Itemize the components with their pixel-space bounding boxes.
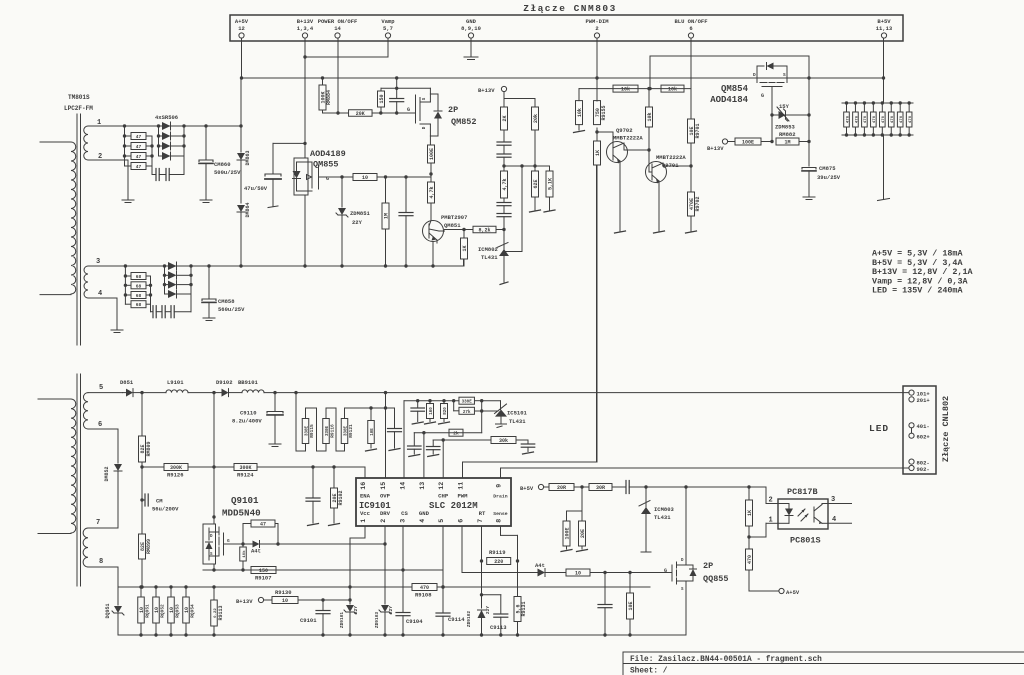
svg-text:RQ954: RQ954 xyxy=(190,604,196,618)
label 2P QM852 xyxy=(448,105,477,127)
svg-text:10: 10 xyxy=(575,571,581,577)
capacitor snubber upper a xyxy=(152,169,159,181)
svg-text:G: G xyxy=(227,538,230,544)
svg-text:QM851: QM851 xyxy=(444,222,461,229)
connector CNM803 title xyxy=(523,3,617,14)
diode DM864 xyxy=(237,176,251,266)
wire BLU down xyxy=(690,89,692,119)
resistor 47 d xyxy=(125,163,153,171)
wire Vamp pin stub xyxy=(305,38,388,57)
diode SR506 4 xyxy=(159,152,185,160)
diode lower 2 xyxy=(165,271,192,279)
resistor 1K pwm xyxy=(594,128,601,462)
svg-text:220: 220 xyxy=(494,559,503,565)
transformer pin 8 xyxy=(88,558,118,587)
wire pin11 pwm line xyxy=(463,166,597,478)
transformer secondary winding 7-8 xyxy=(83,528,88,567)
connector CNL802 pin 201+ xyxy=(909,397,931,404)
svg-text:MMBT2222A: MMBT2222A xyxy=(613,135,643,142)
junction bus635 x403 xyxy=(401,633,404,636)
svg-text:AOD4184: AOD4184 xyxy=(710,95,748,105)
transistor Q9701 MMBT2222A xyxy=(646,150,692,231)
junction pin3 x164 xyxy=(163,264,166,267)
capacitor C9113 xyxy=(490,595,508,635)
capacitor c417 xyxy=(411,399,425,424)
svg-text:15: 15 xyxy=(380,482,387,490)
svg-text:ENA: ENA xyxy=(360,493,371,500)
svg-text:QM854: QM854 xyxy=(721,84,749,94)
svg-text:2k: 2k xyxy=(453,431,459,437)
capacitor ena xyxy=(306,467,320,526)
svg-text:R9155: R9155 xyxy=(601,105,607,120)
junction x306 y143 xyxy=(303,142,306,145)
transformer pin 4 xyxy=(88,290,117,330)
resistor R9116 330E xyxy=(323,408,336,451)
terminal B+13V low xyxy=(236,597,264,605)
resistor RM882 1M xyxy=(776,131,809,146)
svg-text:47: 47 xyxy=(136,164,142,170)
junction bus78 x884 xyxy=(882,76,885,79)
junction bus587 x141 xyxy=(139,585,142,588)
label LED xyxy=(869,423,889,434)
svg-text:CM: CM xyxy=(156,498,163,505)
junction bus635 x443 xyxy=(441,633,444,636)
wire RT stub xyxy=(480,526,483,563)
svg-text:68: 68 xyxy=(136,302,142,308)
svg-text:5: 5 xyxy=(99,384,103,392)
wire ICM803 end xyxy=(641,551,651,553)
connector CNM803 pin BLU ON/OFF 6 xyxy=(674,18,707,38)
junction bus635 x605 xyxy=(603,633,606,636)
svg-text:LED = 135V / 240mA: LED = 135V / 240mA xyxy=(872,286,963,296)
wire zener node vert xyxy=(807,56,810,166)
junction bus635 x481.5 xyxy=(480,633,483,636)
svg-text:R9121: R9121 xyxy=(348,424,354,438)
svg-text:2P: 2P xyxy=(703,561,713,571)
inductor BB9101 xyxy=(238,379,264,393)
junction pin1 x124 xyxy=(123,124,126,127)
svg-text:100E: 100E xyxy=(429,148,435,160)
svg-text:10k: 10k xyxy=(577,108,583,117)
transformer core lower xyxy=(77,374,81,586)
svg-text:47: 47 xyxy=(136,154,142,160)
svg-text:C9114: C9114 xyxy=(448,616,465,623)
inductor L9101 xyxy=(142,379,214,393)
svg-text:150: 150 xyxy=(259,568,268,574)
diode lower 4 xyxy=(165,290,192,298)
svg-text:GND: GND xyxy=(419,510,430,517)
junction bus266 x305 xyxy=(303,264,306,267)
svg-text:470: 470 xyxy=(864,115,868,123)
svg-text:C9110: C9110 xyxy=(240,410,257,417)
wire a5v corner xyxy=(749,590,779,592)
resistor 47 a xyxy=(125,133,153,141)
svg-text:L9101: L9101 xyxy=(167,379,184,386)
label AOD4189 QM855 xyxy=(310,149,346,170)
transformer primary upper winding xyxy=(40,142,76,295)
connector CNM803 body xyxy=(230,15,903,41)
resistor R9701 10E xyxy=(688,119,702,166)
wire diode cathode rail xyxy=(182,126,185,175)
svg-text:7: 7 xyxy=(96,519,100,527)
svg-text:TM801S: TM801S xyxy=(68,94,90,101)
svg-text:10E: 10E xyxy=(689,126,695,135)
capacitor drain node xyxy=(399,177,413,266)
svg-text:300K: 300K xyxy=(170,465,182,471)
diode A4t low xyxy=(462,562,566,577)
svg-text:39u/25V: 39u/25V xyxy=(817,174,841,181)
svg-text:602+: 602+ xyxy=(917,434,931,441)
ground 47u cap xyxy=(268,206,278,208)
svg-text:ZD9103: ZD9103 xyxy=(374,612,380,629)
junction node381 xyxy=(379,111,382,114)
svg-text:11: 11 xyxy=(458,482,465,490)
svg-text:4: 4 xyxy=(419,519,426,523)
svg-text:68: 68 xyxy=(136,283,142,289)
svg-text:C9113: C9113 xyxy=(490,624,507,631)
svg-text:10k: 10k xyxy=(668,87,677,93)
diode D9102 xyxy=(214,379,242,397)
svg-text:D: D xyxy=(753,72,756,78)
optocoupler pin 2 xyxy=(769,497,773,505)
junction bus266 x342 xyxy=(340,264,343,267)
wire fb corner xyxy=(766,487,778,504)
wire A+5V pin stub xyxy=(241,38,243,78)
transformer pin 6 xyxy=(88,421,118,429)
svg-text:R9124: R9124 xyxy=(237,472,254,479)
svg-text:CM860: CM860 xyxy=(214,161,231,168)
svg-text:RQ952: RQ952 xyxy=(160,604,166,618)
svg-text:PC801S: PC801S xyxy=(790,536,821,546)
wire vcc route xyxy=(350,526,365,587)
diode ZD9102 22Y xyxy=(466,595,491,635)
svg-text:RT: RT xyxy=(479,510,486,517)
wire bank feed xyxy=(296,393,306,451)
svg-text:DM864: DM864 xyxy=(245,202,251,217)
svg-text:14: 14 xyxy=(400,482,407,490)
wire QQ855 drain xyxy=(685,487,687,555)
ground 10k pulldown xyxy=(574,131,585,133)
connector CNM803 pin PWM-DIM 2 xyxy=(585,18,609,38)
resistor bank 8x470 xyxy=(844,101,913,136)
wire 10 to drain node xyxy=(377,174,431,177)
junction bus635 x500.8 xyxy=(499,633,502,636)
svg-text:12: 12 xyxy=(438,482,445,490)
transistor QQ855 2P xyxy=(664,555,697,592)
connector CNM803 pin B+5V 11,13 xyxy=(876,18,893,38)
junction blu mid xyxy=(647,87,650,90)
ic IC9101 top pin labels xyxy=(360,482,508,500)
wire r9126 line xyxy=(140,465,164,468)
resistor RQ951 10 xyxy=(138,587,151,635)
diode SR506 2 xyxy=(159,132,185,140)
wire B13 stub xyxy=(504,92,535,107)
label Q9101 MDD5N40 xyxy=(222,495,261,519)
svg-text:ZDM853: ZDM853 xyxy=(775,124,796,131)
capacitor CM 56u/200V xyxy=(142,494,179,513)
resistor 68 a xyxy=(125,273,150,281)
wire gate line y113 xyxy=(323,112,349,114)
junction cap top2 xyxy=(404,175,407,178)
ground pin2 xyxy=(122,200,134,203)
wire pin13 up xyxy=(423,433,425,478)
svg-text:10: 10 xyxy=(169,607,175,613)
svg-text:820: 820 xyxy=(444,407,448,415)
diode IC5101 TL431 xyxy=(482,401,507,423)
junction pin1 x158 xyxy=(157,124,160,127)
svg-text:Q9701: Q9701 xyxy=(662,162,679,169)
svg-text:Drain: Drain xyxy=(493,494,508,500)
diode D851 xyxy=(120,379,142,397)
resistor 68 b xyxy=(125,282,150,290)
capacitor after 30k xyxy=(516,440,535,454)
resistor 330E chp xyxy=(459,397,481,405)
capacitor snubber lower xyxy=(151,306,192,318)
svg-text:10E: 10E xyxy=(371,428,375,436)
wire 68 left rail xyxy=(124,266,127,304)
wire RT node xyxy=(480,561,501,597)
transformer pin 7 xyxy=(88,519,118,528)
note output voltages xyxy=(872,249,973,296)
svg-text:BB9101: BB9101 xyxy=(238,379,259,386)
wire snake b xyxy=(326,408,345,451)
svg-text:82E: 82E xyxy=(140,444,146,453)
svg-text:Vcc: Vcc xyxy=(360,510,371,517)
junction 20R out xyxy=(574,485,589,488)
transformer pin 3 xyxy=(88,258,100,266)
resistor 68 d xyxy=(125,301,150,309)
label PC801S xyxy=(790,536,821,546)
svg-text:R9130: R9130 xyxy=(275,589,292,596)
wire source line xyxy=(203,568,443,571)
svg-text:20E: 20E xyxy=(332,493,338,502)
svg-text:File: Zasilacz.BN44-00501A - f: File: Zasilacz.BN44-00501A - fragment.sc… xyxy=(630,656,822,664)
wire bus A+5V y78 xyxy=(242,77,884,79)
svg-text:Q9101: Q9101 xyxy=(231,495,259,506)
svg-text:1K: 1K xyxy=(747,510,753,516)
resistor RQ953 10 xyxy=(168,587,181,635)
svg-text:10: 10 xyxy=(282,598,288,604)
wire bus B+5V y266 xyxy=(94,265,464,267)
wire diode anode rail low xyxy=(163,266,166,294)
transistor QM852 2P xyxy=(407,88,442,145)
svg-text:MMBT2222A: MMBT2222A xyxy=(656,154,686,161)
svg-text:3: 3 xyxy=(831,496,835,504)
junction a4t out xyxy=(276,542,279,545)
ground 100E fb xyxy=(561,550,572,552)
diode DM852 xyxy=(104,429,122,528)
svg-text:10: 10 xyxy=(184,607,190,613)
wire B+5V pin stub xyxy=(883,38,885,78)
ground Q9702 emitter xyxy=(615,231,626,233)
resistor 8,2k xyxy=(445,226,497,233)
diode SR506 1 xyxy=(159,122,185,130)
junction bus587 x171 xyxy=(169,585,172,588)
junction bus78 x322 xyxy=(321,76,324,79)
resistor 1K QM851 xyxy=(461,228,468,266)
resistor 20K xyxy=(349,110,373,117)
svg-text:22Y: 22Y xyxy=(352,219,363,226)
connector CNL802 pin 902- xyxy=(909,465,930,472)
junction bus587 x142 xyxy=(140,585,143,588)
ground IC5101 xyxy=(496,424,507,428)
svg-text:16: 16 xyxy=(360,482,367,490)
svg-text:OVP: OVP xyxy=(380,493,391,500)
svg-text:TL431: TL431 xyxy=(481,254,498,261)
diode lower 1 xyxy=(165,262,192,270)
transistor Q9101 MDD5N40 xyxy=(203,524,243,564)
junction bus635 x214 xyxy=(212,633,215,636)
wire QQ855 source xyxy=(685,592,687,635)
wire 30k line xyxy=(433,438,491,441)
junction bus635 x385 xyxy=(383,633,386,636)
wire rail y392 xyxy=(264,392,909,394)
svg-text:62E: 62E xyxy=(533,179,539,188)
svg-text:R9102: R9102 xyxy=(338,490,344,505)
ground ovp filter xyxy=(389,449,400,451)
resistor R9155 750 xyxy=(594,101,608,125)
svg-text:12: 12 xyxy=(238,25,245,32)
wire bus gnd y635 xyxy=(118,634,686,636)
transformer core upper xyxy=(77,114,81,345)
optocoupler pin 3 xyxy=(831,496,835,504)
junction bus587 x443 xyxy=(441,585,444,588)
connector CNM803 pin POWER ON/OFF 14 xyxy=(318,18,358,38)
svg-text:D9102: D9102 xyxy=(216,379,233,386)
resistor 30k xyxy=(491,437,516,445)
wire BLU ON/OFF drop xyxy=(690,38,692,89)
junction pin1 x241 xyxy=(239,124,242,127)
svg-text:RM882: RM882 xyxy=(779,131,796,138)
resistor 1M vert xyxy=(382,177,389,266)
wire 27k to tl431 xyxy=(475,409,499,412)
junction bus266 x241 xyxy=(239,264,242,267)
resistor 1K opto xyxy=(746,487,753,537)
transformer secondary winding 5-6 xyxy=(83,393,88,429)
svg-text:9: 9 xyxy=(496,484,503,488)
resistor 68 c xyxy=(125,292,150,300)
diode ICM802 TL431 xyxy=(497,230,509,283)
wire opto pin3 out xyxy=(828,503,852,505)
capacitor div b xyxy=(497,145,511,166)
capacitor CM875 xyxy=(802,165,841,197)
svg-text:LPC2F-FM: LPC2F-FM xyxy=(64,105,93,112)
wire bank end bar xyxy=(878,199,890,201)
resistor RM899 82E xyxy=(139,500,153,587)
wire CS stub xyxy=(402,526,404,612)
diode ZDM853 15Y xyxy=(772,103,809,131)
resistor 47 gate xyxy=(243,520,278,544)
svg-text:2K: 2K xyxy=(502,115,508,121)
svg-text:TL431: TL431 xyxy=(654,514,671,521)
terminal B+13V right xyxy=(707,139,728,152)
capacitor ovp filter xyxy=(388,408,402,448)
svg-text:RQ951: RQ951 xyxy=(145,604,151,618)
svg-text:ICM803: ICM803 xyxy=(654,506,675,513)
junction icm803 top xyxy=(644,485,647,488)
junction bus635 x141 xyxy=(139,633,142,636)
svg-text:1M: 1M xyxy=(784,140,790,146)
optocoupler light arrows xyxy=(798,509,808,521)
junction bus635 x323 xyxy=(321,633,324,636)
wire opto pin1 link xyxy=(749,523,778,537)
svg-text:SLC 2012M: SLC 2012M xyxy=(429,501,478,511)
resistor r444 820 xyxy=(439,399,450,424)
wire 20k down xyxy=(534,130,536,166)
svg-text:3: 3 xyxy=(400,519,407,523)
svg-text:R9113: R9113 xyxy=(218,605,224,620)
svg-text:68: 68 xyxy=(136,274,142,280)
capacitor C9101 xyxy=(300,600,330,635)
svg-text:8.2u/400V: 8.2u/400V xyxy=(232,418,262,425)
svg-text:47: 47 xyxy=(136,134,142,140)
junction D851 node xyxy=(140,391,143,394)
svg-text:A4t: A4t xyxy=(535,562,545,569)
svg-text:CM858: CM858 xyxy=(218,298,235,305)
svg-text:560u/25V: 560u/25V xyxy=(218,306,245,313)
junction bus587 x156 xyxy=(154,585,157,588)
capacitor C9104 xyxy=(396,613,423,636)
svg-text:Vamp: Vamp xyxy=(381,18,395,25)
svg-text:C9104: C9104 xyxy=(406,618,423,625)
wire bus B13 y587 xyxy=(118,586,412,588)
svg-text:B+13V: B+13V xyxy=(297,18,314,25)
junction R9155 bottom xyxy=(595,130,598,133)
svg-text:B+13V: B+13V xyxy=(236,598,253,605)
junction bus635 x156 xyxy=(154,633,157,636)
svg-text:R9126: R9126 xyxy=(167,472,184,479)
label IC9101 xyxy=(359,501,391,511)
resistor 20E fb xyxy=(579,511,586,549)
junction Q9101 drain top xyxy=(212,391,215,394)
transistor Q9702 MMBT2222A xyxy=(597,132,649,231)
resistor 2K xyxy=(501,107,508,130)
capacitor div a xyxy=(497,130,511,145)
connector CNM803 pin GND 8,9,10 xyxy=(461,18,481,38)
label SLC 2012M xyxy=(429,501,478,511)
ground 10E ovp xyxy=(366,449,377,451)
connector CNM803 pin A+5V 12 xyxy=(235,18,249,38)
svg-text:201+: 201+ xyxy=(917,397,931,404)
svg-text:CM875: CM875 xyxy=(819,165,836,172)
svg-text:PMBT2907: PMBT2907 xyxy=(441,214,467,221)
label PC817B xyxy=(787,487,818,497)
ground 5,1K xyxy=(544,210,555,212)
transistor QM851 PMBT2907 xyxy=(423,221,445,267)
wire diode cathode rail low xyxy=(189,266,192,312)
junction bus635 x186 xyxy=(184,633,187,636)
svg-text:QM855: QM855 xyxy=(313,160,339,170)
transformer pin 2 xyxy=(88,153,128,200)
svg-text:470: 470 xyxy=(891,115,895,123)
svg-text:2P: 2P xyxy=(448,105,458,115)
svg-text:4: 4 xyxy=(98,290,102,298)
ic IC9101 bottom pin labels xyxy=(360,510,508,523)
wire 401-602 link xyxy=(911,428,913,433)
svg-text:470: 470 xyxy=(909,115,913,123)
svg-text:C9101: C9101 xyxy=(300,617,317,624)
resistor R9130 10 xyxy=(264,589,352,604)
optocoupler pin 4 xyxy=(832,516,836,524)
junction bus266 x385 xyxy=(384,264,387,267)
wire fb line xyxy=(646,485,766,488)
svg-text:300K: 300K xyxy=(239,465,251,471)
resistor R9113 0.22 xyxy=(211,587,224,635)
label Zlacze CNL802 xyxy=(941,396,951,462)
transformer TM801S label xyxy=(64,94,93,112)
svg-text:Sheet: /: Sheet: / xyxy=(630,668,668,675)
wire QM855 gate xyxy=(325,176,353,178)
